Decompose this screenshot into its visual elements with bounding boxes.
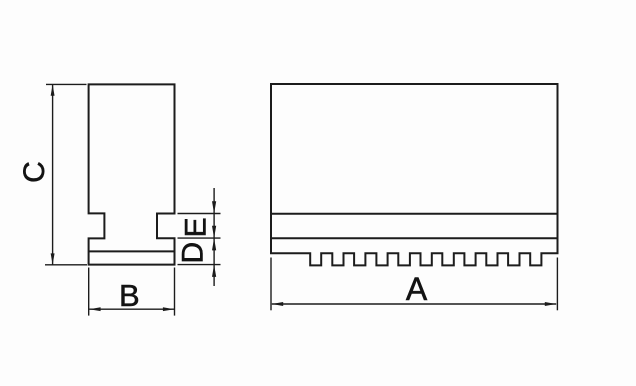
dimension C arrow down (51, 253, 55, 264)
left view: base plate line (89, 250, 175, 252)
dimension E arrow top (212, 201, 216, 213)
dimension D arrow bottom (212, 265, 216, 277)
svg-text:E: E (180, 217, 213, 237)
dimension D arrow top (212, 238, 216, 250)
dimension B extension line right (174, 268, 176, 316)
dimension C line (52, 84, 54, 264)
dimension B extension line left (88, 268, 90, 316)
right view: serration shoulder line (271, 237, 558, 239)
dimension B arrow right (163, 307, 174, 311)
dimension E extension line top (178, 213, 221, 215)
left view: jaw profile outline (89, 84, 175, 264)
dimension E arrow bottom (212, 226, 216, 238)
dimension B line (89, 308, 174, 310)
dimension C extension line top (46, 83, 87, 85)
dimension E/D line (213, 188, 215, 286)
dimension E/D shared extension line middle (178, 237, 221, 239)
dimension A arrow left (272, 302, 283, 306)
dimension D extension line bottom (178, 264, 221, 266)
dimension C extension line bottom (45, 264, 87, 266)
dimension A line (272, 303, 556, 305)
dimension A arrow right (545, 302, 556, 306)
dimension C arrow up (51, 84, 55, 95)
dimension A extension line left (270, 258, 272, 311)
svg-text:C: C (18, 161, 51, 183)
dimension A extension line right (556, 258, 558, 311)
svg-text:A: A (406, 271, 428, 307)
right view: mounting face line (271, 213, 558, 215)
dimension B arrow left (89, 307, 100, 311)
right view: jaw block outline with serrated base (271, 84, 558, 265)
svg-text:B: B (119, 278, 140, 313)
svg-text:D: D (177, 242, 210, 264)
